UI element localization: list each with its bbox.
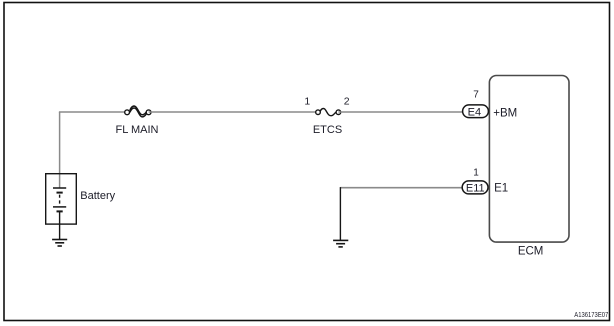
fuse ETCS	[316, 109, 341, 116]
wire ETCS to connector E4	[338, 111, 463, 113]
wire battery vertical riser	[59, 112, 61, 188]
svg-text:E4: E4	[468, 106, 481, 118]
svg-text:ECM: ECM	[518, 245, 544, 257]
svg-text:+BM: +BM	[493, 107, 517, 119]
svg-text:FL MAIN: FL MAIN	[116, 124, 159, 136]
fusible link FL MAIN	[125, 106, 151, 117]
svg-text:Battery: Battery	[80, 190, 115, 202]
svg-text:1: 1	[304, 96, 310, 108]
svg-text:E1: E1	[494, 183, 508, 195]
svg-text:ETCS: ETCS	[313, 124, 342, 136]
wire battery to FL MAIN	[59, 111, 127, 113]
svg-text:E11: E11	[466, 183, 485, 195]
svg-text:7: 7	[473, 90, 479, 101]
battery B1	[46, 174, 77, 224]
svg-text:A136173E07: A136173E07	[574, 310, 608, 319]
wire battery to ground	[59, 211, 61, 239]
svg-text:2: 2	[344, 96, 350, 108]
svg-text:1: 1	[473, 167, 479, 178]
wire FL MAIN to ETCS	[149, 111, 318, 113]
wire ground riser	[339, 187, 341, 240]
ground G2	[52, 240, 67, 247]
ECM box U1	[489, 76, 569, 243]
connector E11	[462, 181, 488, 195]
connector E4	[463, 105, 489, 119]
ground G1	[333, 240, 348, 247]
wire ground to connector E11	[340, 187, 462, 189]
